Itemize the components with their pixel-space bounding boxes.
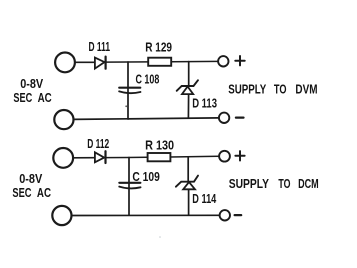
svg-text:SUPPLY: SUPPLY	[229, 176, 270, 191]
svg-text:D 112: D 112	[87, 136, 109, 151]
svg-text:DVM: DVM	[295, 81, 317, 96]
svg-text:DCM: DCM	[298, 176, 319, 191]
svg-text:R 130: R 130	[145, 138, 174, 153]
svg-text:D 113: D 113	[192, 95, 217, 110]
svg-text:TO: TO	[274, 81, 287, 96]
svg-text:0-8V: 0-8V	[20, 76, 43, 91]
svg-text:C 109: C 109	[132, 169, 159, 184]
svg-text:TO: TO	[278, 176, 290, 191]
svg-text:SEC: SEC	[12, 185, 32, 200]
svg-text:SUPPLY: SUPPLY	[228, 81, 266, 96]
svg-text:AC: AC	[37, 185, 52, 200]
svg-text:0-8V: 0-8V	[19, 171, 42, 186]
svg-text:D 114: D 114	[192, 191, 217, 206]
svg-text:C 108: C 108	[136, 72, 160, 87]
svg-text:R 129: R 129	[145, 40, 172, 55]
svg-text:AC: AC	[38, 90, 53, 105]
svg-text:SEC: SEC	[13, 90, 32, 105]
svg-text:D 111: D 111	[89, 39, 111, 54]
